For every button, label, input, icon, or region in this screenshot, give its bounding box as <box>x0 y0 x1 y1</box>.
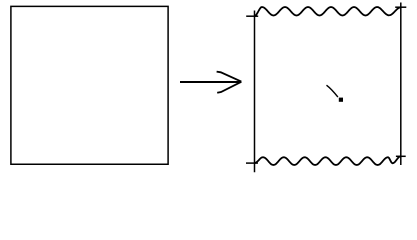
bottom-left corner tick <box>246 162 258 164</box>
bottom wavy boundary <box>255 156 401 165</box>
top-right corner tick <box>395 6 406 8</box>
top-left corner tick <box>246 15 258 17</box>
pointer line to interior point <box>327 85 338 97</box>
wavy region left edge <box>254 11 256 173</box>
interior point marker <box>339 98 343 102</box>
wavy region right edge <box>400 3 402 166</box>
top wavy boundary <box>255 7 401 16</box>
square domain (left) <box>11 6 168 164</box>
arrow shaft <box>180 81 241 83</box>
arrow head upper barb <box>217 72 242 82</box>
arrow head lower barb <box>217 82 241 93</box>
bottom-right corner tick <box>396 155 406 157</box>
